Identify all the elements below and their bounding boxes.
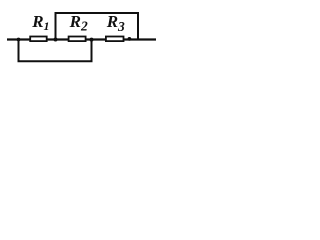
node D : junction dot right of R3 <box>127 37 131 41</box>
svg-text:R1: R1 <box>31 12 49 33</box>
svg-text:R3: R3 <box>106 12 125 34</box>
node C : junction dot bottom-branch right <box>90 38 94 42</box>
svg-text:R2: R2 <box>69 12 88 34</box>
wire : top bypass branch <box>56 13 139 40</box>
node B : junction dot top-branch left <box>54 38 58 42</box>
node A : left T-junction dot <box>17 38 21 42</box>
resistor R1 <box>30 37 47 42</box>
wire : bottom bypass branch <box>19 40 92 62</box>
resistor R2 <box>69 37 86 42</box>
wire : main horizontal wire <box>7 38 156 40</box>
resistor R3 <box>106 37 124 42</box>
